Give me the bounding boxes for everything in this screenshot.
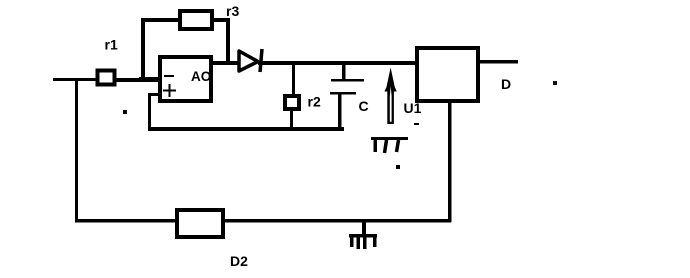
svg-text:r2: r2 — [308, 94, 321, 110]
dot below TTT mark — [396, 165, 400, 169]
wire: r3 right vertical down to output wire — [226, 18, 230, 65]
op-amp plus input mark — [163, 84, 176, 97]
wire: from r1 to op-amp inverting input — [116, 78, 160, 82]
ground symbol 2: tick 2 — [385, 140, 387, 153]
ground: tooth 4 — [373, 234, 377, 247]
arrow: upward current arrow — [384, 68, 396, 125]
wire: left branch vertical down to bottom rail — [75, 79, 78, 222]
svg-text:D2: D2 — [230, 253, 248, 269]
resistor r2 — [285, 96, 299, 109]
wire: plus-input stub left — [149, 93, 160, 96]
wire: feedback left vertical — [141, 19, 145, 81]
diode: cathode bar — [260, 49, 262, 72]
wire: inner bottom horizontal (to r2 and C bottoms) — [148, 127, 344, 131]
op-amp U: AO box — [160, 57, 211, 101]
wire: r2 top lead — [292, 64, 295, 96]
svg-text:r1: r1 — [105, 37, 118, 53]
diode: triangle — [239, 51, 258, 71]
ground symbol 2: tick 1 — [374, 140, 378, 152]
wire: r3 right horizontal — [212, 18, 229, 22]
wire: doubled overlap segment at inverting input — [139, 77, 158, 82]
component D2 box — [177, 210, 223, 237]
IC U1 box — [417, 48, 478, 101]
wire: op-amp output to diode — [211, 61, 239, 65]
svg-text:D: D — [501, 76, 511, 92]
ground: bar — [349, 234, 377, 238]
resistor r3 — [180, 11, 212, 29]
ground: stem — [362, 221, 366, 236]
wire: plus-input vertical down — [148, 93, 151, 130]
svg-text:r3: r3 — [226, 3, 239, 19]
ground: tooth 1 — [350, 237, 354, 247]
wire: bottom rail — [75, 219, 451, 223]
dot right of D — [553, 81, 557, 85]
ground: tooth 3 — [363, 237, 367, 249]
wire: input horizontal — [53, 78, 158, 81]
ground: tooth 2 — [357, 237, 361, 249]
wire: r2 bottom lead — [290, 109, 293, 129]
capacitor C bottom plate — [330, 92, 356, 95]
capacitor C top lead — [342, 64, 346, 79]
svg-text:AO: AO — [191, 69, 211, 84]
wire: U1 output right — [479, 60, 518, 64]
dot below r1 area — [123, 110, 127, 114]
resistor r1 — [98, 71, 115, 85]
capacitor C bottom lead — [338, 93, 342, 129]
svg-text:C: C — [359, 98, 369, 114]
op-amp minus input mark — [164, 75, 174, 77]
wire: feedback top horizontal — [141, 18, 179, 22]
ground symbol 2: bar (TTT mark) — [371, 137, 408, 140]
wire: diode to U1 — [258, 61, 417, 65]
capacitor C top plate — [331, 79, 364, 82]
wire: U1 bottom vertical to rail — [448, 101, 452, 222]
ground symbol 2: tick 3 — [397, 140, 399, 152]
dash right of U1 — [414, 123, 419, 125]
